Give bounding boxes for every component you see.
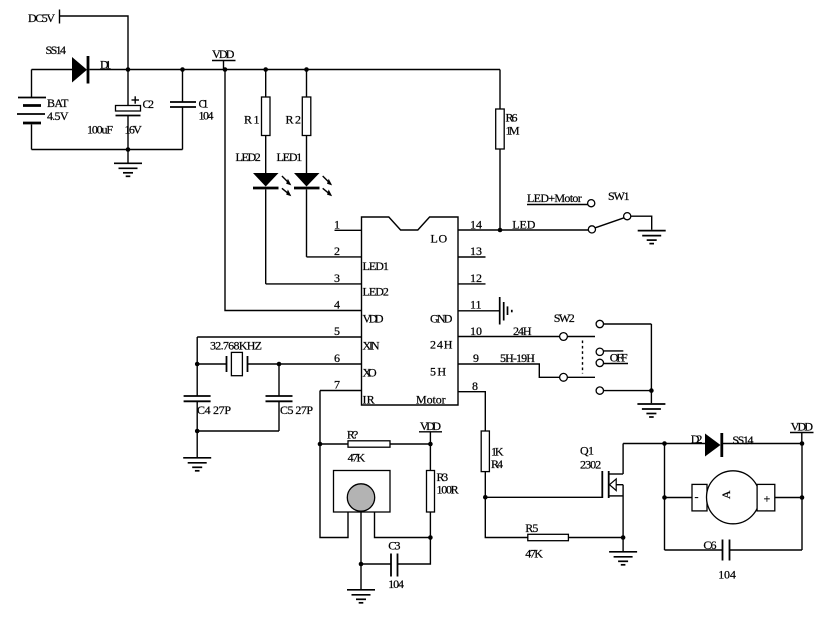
svg-text:R4: R4 [491,457,503,471]
svg-text:SW1: SW1 [608,189,630,203]
ground (Q1) [609,538,637,565]
capacitor C4 27P [184,364,232,431]
svg-text:13: 13 [470,244,482,258]
capacitor C5 27P [266,364,314,431]
junction at R2 [304,67,309,72]
ground (SW2) [637,404,665,417]
svg-text:OFF: OFF [610,351,628,365]
svg-text:Q1: Q1 [580,444,594,458]
junction crystal right [277,362,282,367]
wire motor left rail [664,444,666,551]
svg-text:5: 5 [334,324,340,338]
wire drain to D2 [623,443,705,445]
svg-text:104: 104 [388,577,404,591]
pin 12 stub [458,271,486,285]
svg-text:VDD: VDD [791,420,814,434]
pin 7 wire (IR) [320,378,362,392]
svg-text:104: 104 [718,568,736,582]
junction R4/gate/R5 [483,495,488,500]
svg-text:100uF: 100uF [87,123,113,137]
svg-text:2302: 2302 [580,458,601,472]
pin 8 wire (Motor) [458,379,485,431]
svg-text:SS14: SS14 [732,433,753,447]
ground (SW1) [638,231,666,244]
switch SW2 [554,311,652,403]
diode D2 SS14 [691,432,802,457]
svg-text:5H-19H: 5H-19H [500,351,535,365]
svg-text:R2: R2 [286,113,302,127]
resistor R2 [286,70,311,174]
ground (IR) [347,564,375,603]
capacitor C1 104 [170,70,214,150]
pin 9 wire (5H-19H) [458,351,560,377]
node DC5V input terminal [28,10,60,26]
svg-text:16V: 16V [125,123,143,137]
junction SW2 bottom [649,388,654,393]
junction at C1 [180,67,185,72]
wire bottom rail [32,149,183,151]
svg-text:100R: 100R [437,483,459,497]
capacitor C2 100uF 16V [87,70,154,150]
junction motor left rail [662,441,667,446]
junction R3 bottom [428,535,433,540]
svg-text:XIN: XIN [363,339,380,353]
pin 1 stub [334,218,362,232]
pin 5 wire (XIN) [197,324,361,338]
svg-text:XO: XO [363,366,378,380]
resistor R4 1K [481,431,504,497]
junction at R1 [263,67,268,72]
svg-text:GND: GND [430,312,453,326]
svg-text:4: 4 [334,298,340,312]
node VDD (top rail) [212,47,236,70]
svg-text:LED1: LED1 [363,259,389,273]
pin 6 wire (XO) [279,351,362,365]
svg-text:4.5V: 4.5V [47,109,69,123]
resistor R5 47K [525,521,623,561]
pin 10 wire (24H) [458,324,560,338]
svg-text:104: 104 [199,109,214,123]
crystal Y1 32.768KHZ [197,337,279,376]
motor M1 (meter A) [665,471,803,524]
svg-text:BAT: BAT [47,96,69,110]
resistor R1 [244,70,270,174]
junction R7 left [318,442,323,447]
svg-text:R?: R? [347,428,358,442]
svg-text:5H: 5H [430,365,446,379]
wire DC5V to rail [60,16,128,70]
svg-text:A: A [719,490,733,499]
resistor R3 100R [427,444,459,538]
wire gate [485,496,602,498]
svg-text:R1: R1 [244,113,260,127]
ground (pin 11, rotated) [500,297,512,325]
svg-text:24H: 24H [513,324,532,338]
wire crystal bottom [197,430,279,432]
svg-text:LED2: LED2 [363,285,389,299]
capacitor C6 104 [665,538,803,582]
svg-text:1M: 1M [506,124,520,138]
diode D1 SS14 [32,43,129,84]
svg-text:1: 1 [334,218,340,232]
LED LED1 [277,150,333,257]
wire R5 to gate junction [485,497,528,537]
wire pin7 to IR network [320,391,348,538]
svg-text:VDD: VDD [363,312,384,326]
junction pin14/R6 [498,228,503,233]
svg-text:DC5V: DC5V [28,11,55,25]
wire IR right pin [375,512,431,538]
svg-text:LED+Motor: LED+Motor [527,191,582,205]
node VDD (R3 top) [419,419,442,444]
svg-text:VDD: VDD [420,419,441,433]
wire main rail [128,69,500,71]
svg-text:11: 11 [470,298,482,312]
svg-text:VDD: VDD [212,47,235,61]
pin 3 wire (LED2) [266,271,362,285]
svg-text:10: 10 [470,324,482,338]
resistor R7 47K [320,428,430,465]
transistor Q1 2302 [580,444,623,538]
svg-text:R6: R6 [506,111,518,125]
svg-text:C3: C3 [388,539,400,553]
svg-text:24H: 24H [430,338,453,352]
svg-text:-: - [695,490,699,504]
svg-text:LED: LED [512,218,535,232]
junction VDD motor [800,441,805,446]
junction motor left [662,495,667,500]
svg-text:LED1: LED1 [277,150,303,164]
svg-text:C4 27P: C4 27P [197,403,231,417]
svg-text:LO: LO [431,232,448,246]
svg-text:47K: 47K [348,451,366,465]
IR receiver U2 [334,471,391,513]
junction R7/R3/VDD [428,442,433,447]
svg-text:R5: R5 [525,521,538,535]
pin 4 wire (VDD) [225,70,362,312]
svg-text:32.768KHZ: 32.768KHZ [210,339,262,353]
svg-text:SW2: SW2 [554,311,575,325]
wire IR middle pin [360,511,362,564]
svg-text:9: 9 [473,351,479,365]
junction crystal left [195,362,200,367]
junction C4 bottom [195,429,200,434]
svg-text:8: 8 [472,379,478,393]
junction C3 left [359,562,364,567]
svg-text:+: + [764,492,771,506]
svg-text:C2: C2 [143,97,155,111]
svg-text:6: 6 [334,351,340,365]
junction source/R5 [621,535,626,540]
svg-text:D2: D2 [691,432,703,446]
junction at ground [126,147,131,152]
svg-text:SS14: SS14 [46,43,67,57]
pin 2 wire (LED1) [307,244,362,258]
IC internal labels [363,232,453,407]
svg-text:14: 14 [470,218,482,232]
resistor R6 1M [496,70,520,231]
svg-text:Motor: Motor [416,393,446,407]
switch SW1 [527,189,652,233]
op-amp U1 (IC body) [362,217,459,405]
pin 13 stub [458,244,486,258]
svg-text:12: 12 [470,271,482,285]
svg-text:IR: IR [363,393,375,407]
battery BAT 4.5V [17,70,69,150]
svg-text:7: 7 [334,378,340,392]
junction at DC5V/C2 [126,67,131,72]
svg-text:LED2: LED2 [236,150,261,164]
pin 14 wire (LO/LED) [458,218,588,232]
capacitor C3 104 [361,538,430,592]
svg-text:2: 2 [334,244,340,258]
node VDD (motor) [790,420,814,444]
ground (crystal) [183,431,211,471]
svg-text:47K: 47K [525,547,543,561]
svg-text:C5 27P: C5 27P [280,403,313,417]
LED LED2 [236,150,292,284]
ground (battery) [114,150,142,177]
junction at VDD [223,67,228,72]
pin 11 wire (GND) [458,298,500,312]
wire motor right rail [801,444,803,551]
junction motor right [800,495,805,500]
svg-text:3: 3 [334,271,340,285]
